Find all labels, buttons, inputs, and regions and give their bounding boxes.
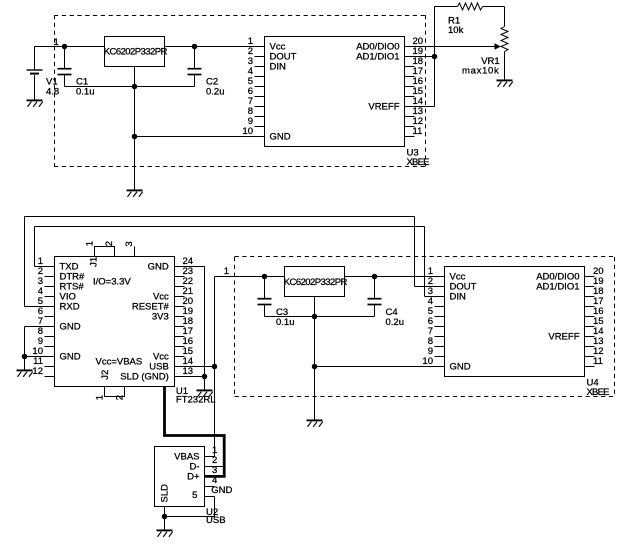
svg-text:VREFF: VREFF xyxy=(548,331,579,342)
svg-text:12: 12 xyxy=(32,366,43,377)
svg-text:XBEE: XBEE xyxy=(407,157,430,168)
svg-text:0.1u: 0.1u xyxy=(276,317,295,328)
svg-text:2: 2 xyxy=(114,395,125,400)
svg-text:SLD: SLD xyxy=(160,484,171,503)
svg-text:1: 1 xyxy=(84,241,95,246)
svg-text:10: 10 xyxy=(242,126,253,137)
svg-text:AD1/DIO1: AD1/DIO1 xyxy=(356,51,399,62)
svg-text:max10k: max10k xyxy=(462,66,499,77)
svg-text:1: 1 xyxy=(224,266,229,277)
svg-text:USB: USB xyxy=(206,515,226,526)
svg-text:VREFF: VREFF xyxy=(368,101,399,112)
svg-text:11: 11 xyxy=(413,126,423,137)
svg-text:11: 11 xyxy=(593,356,603,367)
svg-text:GND: GND xyxy=(450,361,471,372)
svg-text:D+: D+ xyxy=(187,471,200,482)
svg-text:FT232RL: FT232RL xyxy=(176,394,216,405)
svg-text:4.8: 4.8 xyxy=(46,86,59,97)
svg-text:GND: GND xyxy=(60,321,81,332)
svg-text:10k: 10k xyxy=(448,25,464,36)
svg-text:GND: GND xyxy=(60,351,81,362)
svg-text:GND: GND xyxy=(270,131,291,142)
svg-text:KC6202P332PR: KC6202P332PR xyxy=(104,47,168,58)
svg-text:I/O=3.3V: I/O=3.3V xyxy=(93,277,131,288)
svg-text:AD1/DIO1: AD1/DIO1 xyxy=(536,281,579,292)
svg-text:13: 13 xyxy=(183,366,194,377)
svg-text:J1: J1 xyxy=(89,257,100,267)
svg-text:2: 2 xyxy=(104,241,115,246)
svg-text:0.2u: 0.2u xyxy=(206,86,225,97)
svg-text:3V3: 3V3 xyxy=(152,311,169,322)
svg-text:Vcc=VBAS: Vcc=VBAS xyxy=(96,356,143,367)
svg-text:DIN: DIN xyxy=(270,61,287,72)
svg-text:10: 10 xyxy=(422,356,433,367)
svg-text:DIN: DIN xyxy=(450,291,467,302)
svg-text:4: 4 xyxy=(212,475,217,486)
svg-text:1: 1 xyxy=(54,37,59,48)
svg-text:KC6202P332PR: KC6202P332PR xyxy=(284,277,348,288)
svg-text:0.1u: 0.1u xyxy=(76,86,95,97)
svg-text:GND: GND xyxy=(211,485,232,496)
svg-text:J2: J2 xyxy=(100,370,111,380)
svg-text:XBEE: XBEE xyxy=(587,387,610,398)
svg-text:3: 3 xyxy=(124,241,135,246)
svg-text:GND: GND xyxy=(148,261,169,272)
svg-text:RXD: RXD xyxy=(60,301,80,312)
svg-text:SLD (GND): SLD (GND) xyxy=(120,371,169,382)
svg-text:1: 1 xyxy=(94,395,105,400)
svg-text:5: 5 xyxy=(192,490,197,501)
svg-text:0.2u: 0.2u xyxy=(386,317,405,328)
